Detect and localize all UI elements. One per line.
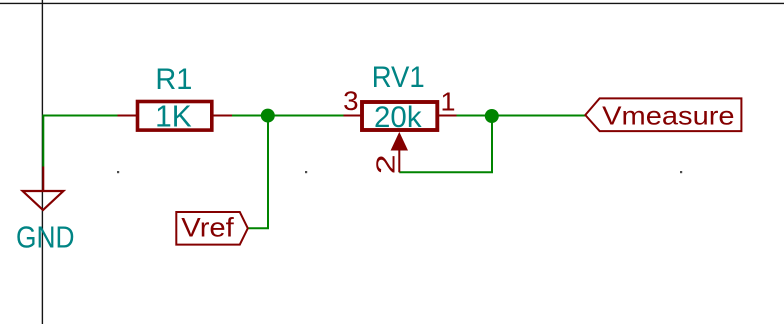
svg-text:R1: R1 <box>155 63 192 96</box>
svg-text:1: 1 <box>441 87 456 117</box>
R1 pin 1 lead <box>118 115 138 117</box>
GND pin stem <box>42 167 44 192</box>
R1 body <box>138 102 212 131</box>
svg-text:3: 3 <box>343 86 359 116</box>
GND triangle <box>23 191 64 210</box>
sheet frame vertical border line <box>41 0 43 324</box>
svg-text:RV1: RV1 <box>372 61 425 94</box>
RV1 wiper pin 2 lead <box>398 151 400 173</box>
svg-text:GND: GND <box>16 220 75 255</box>
sheet frame horizontal border line <box>0 2 784 4</box>
Vref flag outline <box>176 212 248 245</box>
junction node B <box>485 109 499 123</box>
svg-text:Vref: Vref <box>181 213 234 243</box>
svg-text:Vmeasure: Vmeasure <box>602 101 735 131</box>
svg-text:20k: 20k <box>374 101 422 134</box>
junction node A <box>261 109 275 123</box>
R1 pin 2 lead <box>212 115 232 117</box>
ground <box>16 167 75 255</box>
global label Vmeasure <box>585 98 741 131</box>
RV1 wiper arrow <box>391 132 408 151</box>
global label Vref <box>176 212 248 245</box>
grid dot (681,172) <box>680 171 682 173</box>
RV1 pin 1 lead <box>438 115 457 117</box>
wire GND corner to R1 <box>43 116 117 167</box>
resistor R1 <box>118 63 233 134</box>
wire node A down to Vref label <box>249 116 269 229</box>
wire RV1 pin 1 to Vmeasure label through node B <box>457 115 586 117</box>
RV1 body <box>362 102 437 130</box>
svg-text:1K: 1K <box>155 99 192 134</box>
grid dot (306,172) <box>305 171 307 173</box>
potentiometer RV1 <box>343 61 456 175</box>
svg-text:2: 2 <box>371 154 401 174</box>
RV1 pin 3 lead <box>344 115 363 117</box>
wire RV1 wiper to node B <box>399 116 492 172</box>
Vmeasure flag outline <box>585 98 741 131</box>
grid dot (118,172) <box>117 171 119 173</box>
wire R1 to RV1 pin 3 through node A <box>232 115 344 117</box>
